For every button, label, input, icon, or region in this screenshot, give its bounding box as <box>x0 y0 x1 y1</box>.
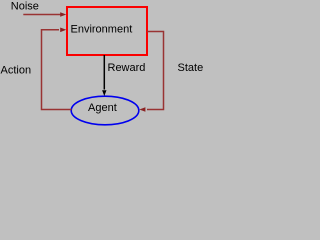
svg-text:State: State <box>178 62 204 74</box>
svg-text:Action: Action <box>1 64 32 76</box>
svg-text:Reward: Reward <box>108 62 146 74</box>
svg-text:Noise: Noise <box>11 1 39 13</box>
svg-text:Environment: Environment <box>71 24 133 36</box>
svg-text:Agent: Agent <box>88 102 117 114</box>
